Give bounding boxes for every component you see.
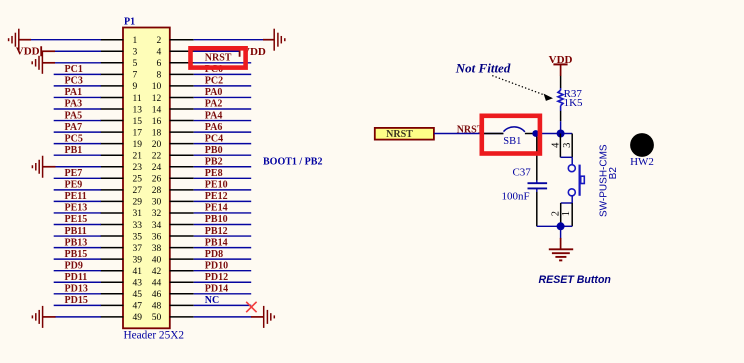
wire pin 45 — [54, 293, 101, 295]
svg-text:49: 49 — [133, 313, 143, 323]
resistor R37 lead bottom blue — [560, 106, 562, 111]
wire pin 30 — [194, 200, 252, 202]
switch pin 3 wire — [571, 134, 573, 158]
power ground stub pin 1 — [19, 39, 31, 41]
svg-text:PA7: PA7 — [65, 122, 83, 133]
svg-text:NC: NC — [205, 295, 219, 306]
switch pin 1 wire — [571, 203, 573, 226]
power ground symbol pin 49 — [32, 306, 42, 328]
svg-text:PE13: PE13 — [65, 203, 88, 214]
switch top bracket wire — [560, 156, 572, 158]
svg-text:1: 1 — [133, 36, 138, 46]
wire pin 7 — [54, 73, 101, 75]
svg-text:48: 48 — [152, 302, 162, 312]
wire pin 22 — [194, 154, 252, 156]
svg-text:9: 9 — [133, 82, 138, 92]
hardware HW2 circle — [630, 133, 654, 157]
wire pin 28 — [194, 189, 252, 191]
svg-text:PA2: PA2 — [205, 99, 223, 110]
switch contact stub bottom — [571, 196, 573, 203]
svg-text:34: 34 — [152, 221, 162, 231]
wire pin 37 — [54, 247, 101, 249]
wire pin 39 — [54, 258, 101, 260]
wire SB1 to node — [539, 133, 561, 135]
wire pin 43 — [54, 281, 101, 283]
svg-text:39: 39 — [133, 256, 143, 266]
svg-text:33: 33 — [133, 221, 143, 231]
switch bottom bracket wire — [561, 202, 573, 204]
svg-text:PD8: PD8 — [205, 249, 223, 260]
svg-text:PB2: PB2 — [205, 156, 223, 167]
svg-text:24: 24 — [152, 163, 162, 173]
power ground stub pin 23 — [43, 166, 56, 168]
svg-text:PA4: PA4 — [205, 110, 223, 121]
svg-text:2: 2 — [550, 211, 561, 216]
solder bridge SB1 pin right — [525, 133, 536, 135]
svg-text:18: 18 — [152, 128, 162, 138]
svg-text:23: 23 — [133, 163, 143, 173]
svg-text:PE10: PE10 — [205, 180, 228, 191]
svg-text:PE8: PE8 — [205, 168, 223, 179]
power VDD bar top — [553, 63, 567, 65]
svg-text:RESET Button: RESET Button — [539, 274, 612, 286]
highlight box NRST pin 6 — [191, 48, 246, 67]
svg-text:41: 41 — [133, 267, 143, 277]
svg-text:Not Fitted: Not Fitted — [455, 60, 511, 75]
resistor R37 zigzag — [558, 90, 563, 105]
VDD bar pin 3 — [40, 46, 42, 56]
junction node NRST net — [557, 130, 565, 138]
svg-text:1: 1 — [561, 211, 572, 216]
power ground symbol pin 23 — [32, 156, 42, 178]
ground GND symbol — [549, 249, 573, 260]
wire pin 3 to VDD — [54, 50, 101, 52]
svg-text:32: 32 — [152, 209, 162, 219]
switch contact circle top — [568, 165, 575, 172]
capacitor C37 plates — [528, 183, 548, 188]
ground GND stub — [560, 238, 562, 249]
svg-text:PE9: PE9 — [65, 180, 83, 191]
svg-text:PA3: PA3 — [65, 99, 83, 110]
svg-text:NRST: NRST — [386, 129, 413, 140]
svg-text:38: 38 — [152, 244, 162, 254]
svg-text:PC1: PC1 — [65, 64, 83, 75]
wire pin 27 — [54, 189, 101, 191]
connector P1 body (Header 25X2) — [123, 28, 170, 329]
wire pin 33 — [54, 224, 101, 226]
wire pin 25 — [54, 177, 101, 179]
svg-text:PD12: PD12 — [205, 272, 228, 283]
svg-text:31: 31 — [133, 209, 143, 219]
wire pin 49 to ground — [55, 316, 101, 318]
svg-text:HW2: HW2 — [630, 156, 654, 168]
svg-text:PD13: PD13 — [65, 284, 88, 295]
power ground symbol pin 2 — [274, 29, 285, 51]
svg-text:PB11: PB11 — [65, 226, 87, 237]
svg-text:17: 17 — [133, 128, 143, 138]
svg-text:PD10: PD10 — [205, 260, 228, 271]
svg-text:PB12: PB12 — [205, 226, 228, 237]
left pin stubs pins 1-49 — [100, 40, 123, 317]
svg-text:PE11: PE11 — [65, 191, 87, 202]
svg-text:7: 7 — [133, 71, 138, 81]
svg-text:PA0: PA0 — [205, 87, 223, 98]
wire pin 8 — [194, 73, 252, 75]
svg-text:PB1: PB1 — [65, 145, 83, 156]
solder bridge SB1 arc — [504, 127, 525, 132]
svg-text:28: 28 — [152, 186, 162, 196]
capacitor C37 lead top blue — [536, 180, 538, 183]
wire pin 40 — [194, 258, 252, 260]
svg-text:30: 30 — [152, 198, 162, 208]
wire pin 16 — [194, 120, 252, 122]
switch pin 4 wire — [559, 134, 561, 158]
wire pin 17 — [54, 131, 101, 133]
wire pin 47 — [54, 304, 101, 306]
wire pin 21 — [54, 154, 101, 156]
svg-text:PD9: PD9 — [65, 260, 83, 271]
power VDD stub — [560, 64, 562, 76]
svg-text:PC5: PC5 — [65, 133, 83, 144]
wire pin 35 — [54, 235, 101, 237]
svg-text:C37: C37 — [512, 166, 531, 178]
switch actuator bar — [578, 165, 580, 196]
svg-text:19: 19 — [133, 140, 143, 150]
wire pin 14 — [194, 108, 252, 110]
capacitor C37 lead bottom black — [536, 192, 538, 226]
svg-text:12: 12 — [152, 94, 162, 104]
svg-text:20: 20 — [152, 140, 162, 150]
svg-text:22: 22 — [152, 152, 162, 162]
svg-text:8: 8 — [156, 71, 161, 81]
wire pin 46 — [194, 293, 252, 295]
svg-text:43: 43 — [133, 279, 143, 289]
highlight box SB1 — [482, 116, 540, 154]
power ground stub pin 5 — [42, 62, 55, 64]
wire pin 23 to ground — [55, 166, 101, 168]
svg-text:5: 5 — [133, 59, 138, 69]
arrow head — [544, 94, 553, 101]
wire pin 15 — [54, 120, 101, 122]
svg-text:40: 40 — [152, 256, 162, 266]
svg-text:PC4: PC4 — [205, 133, 223, 144]
svg-text:PD11: PD11 — [65, 272, 88, 283]
resistor R37 lead bottom black — [560, 111, 562, 121]
pin numbers 1-50 — [133, 36, 162, 323]
switch pin 2 wire — [560, 203, 562, 226]
solder bridge SB1 pin left — [482, 133, 503, 135]
wire pin 24 — [194, 166, 252, 168]
wire pin 6 — [194, 62, 252, 64]
svg-text:PB0: PB0 — [205, 145, 223, 156]
switch bottom bar wire — [561, 225, 573, 227]
svg-text:PE12: PE12 — [205, 191, 228, 202]
wire pin 41 — [54, 270, 101, 272]
svg-text:25: 25 — [133, 175, 143, 185]
svg-text:42: 42 — [152, 267, 162, 277]
svg-text:PD15: PD15 — [65, 295, 88, 306]
svg-text:46: 46 — [152, 290, 162, 300]
svg-text:Header 25X2: Header 25X2 — [124, 330, 185, 342]
junction node ground — [557, 222, 565, 230]
wire pin 36 — [194, 235, 252, 237]
svg-text:6: 6 — [156, 59, 161, 69]
svg-text:21: 21 — [133, 152, 143, 162]
svg-text:VDD: VDD — [16, 46, 40, 58]
right pin stubs pins 2-50 — [170, 40, 194, 317]
wire pin 48 — [194, 304, 252, 306]
svg-text:PA6: PA6 — [205, 122, 223, 133]
svg-text:11: 11 — [133, 94, 142, 104]
wire pin 20 — [194, 143, 252, 145]
wire pin 12 — [194, 96, 252, 98]
svg-text:47: 47 — [133, 302, 143, 312]
svg-text:37: 37 — [133, 244, 143, 254]
svg-text:4: 4 — [551, 142, 562, 148]
svg-text:29: 29 — [133, 198, 143, 208]
wire C37 to ground node — [537, 225, 561, 227]
svg-text:15: 15 — [133, 117, 143, 127]
svg-text:100nF: 100nF — [501, 190, 529, 202]
switch actuator plunger — [581, 176, 585, 183]
wire pin 2 to ground — [194, 39, 264, 41]
svg-text:BOOT1 / PB2: BOOT1 / PB2 — [263, 157, 322, 168]
wire pin 42 — [194, 270, 252, 272]
wire pin 31 — [54, 212, 101, 214]
wire pin 4 to VDD — [194, 50, 240, 52]
svg-text:26: 26 — [152, 175, 162, 185]
wire pin 34 — [194, 224, 252, 226]
wire pin 26 — [194, 177, 252, 179]
wire pin 50 to ground — [194, 316, 252, 318]
wire R37 to node — [560, 121, 562, 133]
svg-text:50: 50 — [152, 313, 162, 323]
port NRST body — [375, 128, 434, 140]
svg-text:44: 44 — [152, 279, 162, 289]
junction node SB1 / C37 — [532, 130, 539, 137]
svg-text:PC2: PC2 — [205, 76, 223, 87]
svg-text:35: 35 — [133, 232, 143, 242]
svg-text:B2: B2 — [608, 167, 619, 180]
resistor R37 lead top blue — [560, 88, 562, 90]
power ground symbol pin 5 — [32, 52, 42, 74]
resistor R37 lead top black — [560, 76, 562, 88]
svg-text:SB1: SB1 — [503, 136, 521, 147]
svg-text:PB14: PB14 — [205, 237, 228, 248]
power ground stub pin 50 — [251, 316, 264, 318]
wire node to ground — [560, 226, 562, 238]
wire pin 9 — [54, 85, 101, 87]
svg-text:PE7: PE7 — [65, 168, 83, 179]
svg-text:PB10: PB10 — [205, 214, 228, 225]
wire pin 19 — [54, 143, 101, 145]
wire NRST port to SB1 — [434, 133, 503, 135]
svg-text:14: 14 — [152, 105, 162, 115]
wire pin 11 — [54, 96, 101, 98]
wire pin 5 to ground — [54, 62, 101, 64]
wire pin 18 — [194, 131, 252, 133]
power ground symbol pin 50 — [264, 306, 275, 328]
VDD bar pin 4 — [239, 47, 241, 57]
svg-text:PD14: PD14 — [205, 284, 228, 295]
VDD power stub pin 3 — [41, 50, 55, 52]
svg-text:P1: P1 — [124, 17, 135, 28]
svg-text:1K5: 1K5 — [564, 97, 583, 109]
svg-text:PA1: PA1 — [65, 87, 83, 98]
svg-text:PE15: PE15 — [65, 214, 88, 225]
wire pin 29 — [54, 200, 101, 202]
switch contact stub top — [571, 157, 573, 165]
svg-text:27: 27 — [133, 186, 143, 196]
svg-text:NRST: NRST — [205, 53, 232, 64]
power ground stub pin 49 — [43, 316, 56, 318]
svg-text:PB13: PB13 — [65, 237, 88, 248]
capacitor C37 lead bottom blue — [536, 188, 538, 192]
svg-text:10: 10 — [152, 82, 162, 92]
wire node to switch pin 3 — [561, 133, 573, 135]
wire pin 1 to ground — [30, 39, 101, 41]
svg-text:45: 45 — [133, 290, 143, 300]
switch contact circle bottom — [568, 189, 575, 196]
wire pin 44 — [194, 281, 252, 283]
wire pin 10 — [194, 85, 252, 87]
no-ERC marker pin 48 — [246, 302, 256, 312]
svg-text:SW-PUSH-CMS: SW-PUSH-CMS — [598, 144, 609, 217]
svg-text:PB15: PB15 — [65, 249, 88, 260]
arrow dotted line — [493, 76, 543, 95]
power ground stub pin 2 — [263, 39, 274, 41]
wire pin 13 — [54, 108, 101, 110]
svg-text:4: 4 — [156, 48, 161, 58]
svg-text:2: 2 — [156, 36, 161, 46]
svg-text:PC3: PC3 — [65, 76, 83, 87]
svg-text:36: 36 — [152, 232, 162, 242]
wire pin 32 — [194, 212, 252, 214]
svg-text:3: 3 — [562, 143, 573, 148]
svg-text:PA5: PA5 — [65, 110, 83, 121]
svg-text:16: 16 — [152, 117, 162, 127]
svg-text:13: 13 — [133, 105, 143, 115]
capacitor C37 lead top black — [536, 137, 538, 181]
svg-text:3: 3 — [133, 48, 138, 58]
power ground symbol pin 1 — [9, 29, 19, 51]
wire pin 38 — [194, 247, 252, 249]
svg-text:PE14: PE14 — [205, 203, 228, 214]
